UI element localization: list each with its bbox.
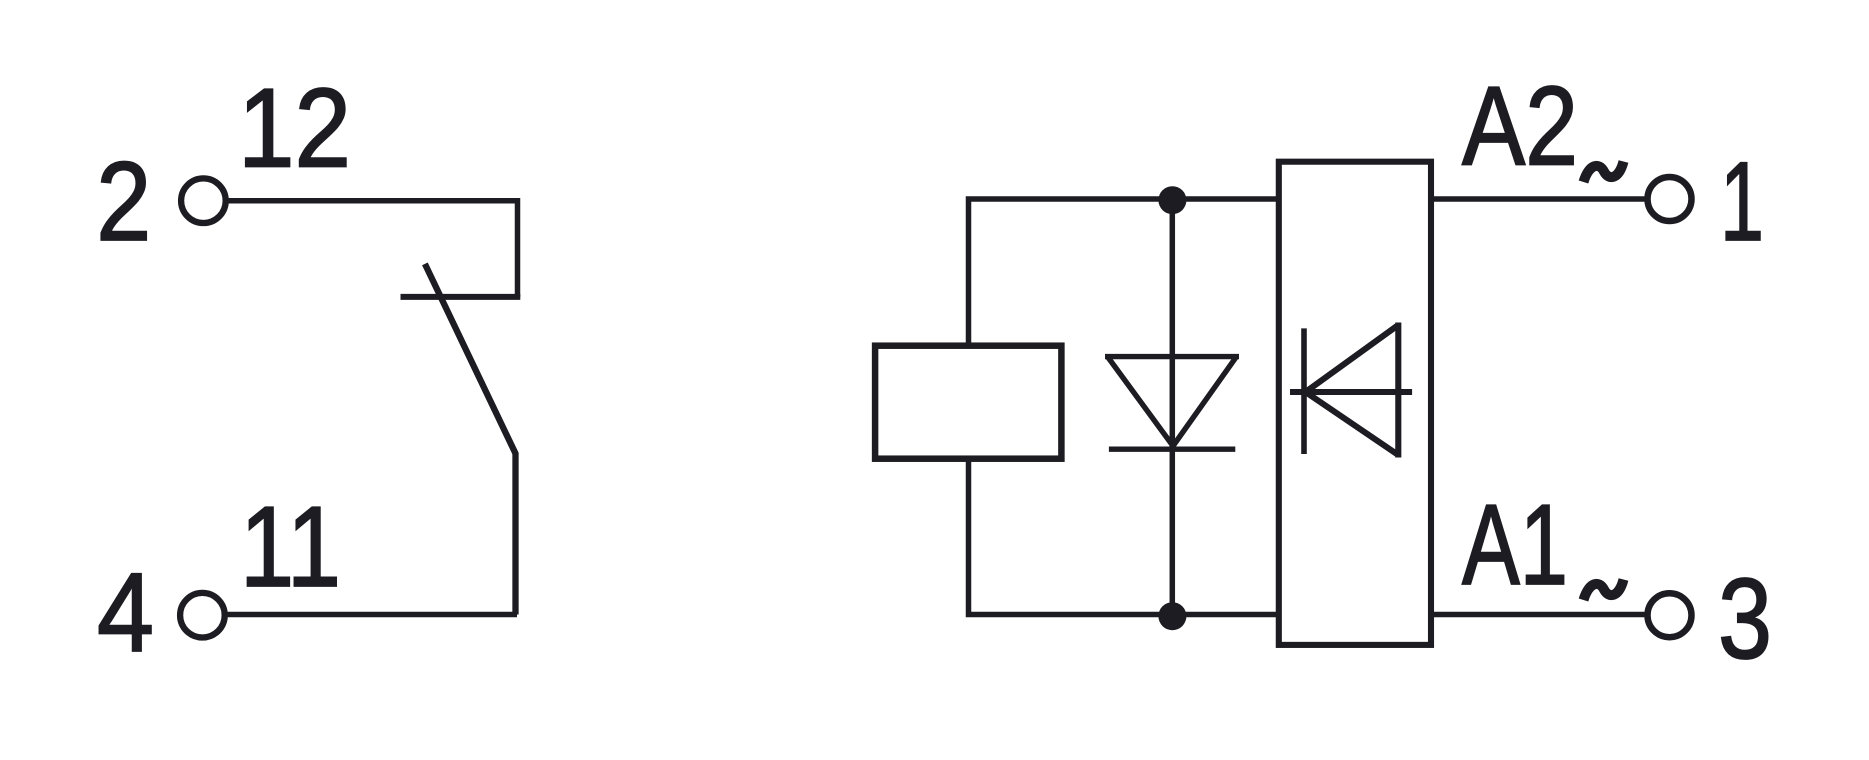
svg-text:A1: A1 (1462, 482, 1568, 609)
junction node top (1158, 186, 1186, 214)
wire coil bottom to bottom rail (969, 459, 1279, 615)
wire U1 to terminal 1 (1431, 196, 1645, 202)
U1 symbol cathode bar (1301, 328, 1307, 454)
svg-text:11: 11 (240, 484, 341, 611)
terminal circle 4 (180, 593, 225, 638)
terminal circle 1 (1648, 177, 1692, 221)
U1 symbol diode triangle (1306, 323, 1399, 458)
terminal circle 2 (181, 178, 226, 223)
contact label 11 (240, 484, 341, 611)
wire U1 to terminal 3 (1431, 612, 1645, 618)
contact label 12 (238, 66, 351, 191)
wire diode branch vertical (1170, 199, 1176, 615)
diode V1 triangle (1105, 357, 1239, 446)
svg-text:2: 2 (96, 139, 151, 264)
wire from arm to terminal 4 (227, 612, 517, 618)
svg-text:4: 4 (97, 550, 154, 675)
AC tilde near A1 (1584, 580, 1624, 601)
electronics block U1 (1279, 162, 1431, 645)
terminal label 1 (1720, 139, 1764, 264)
svg-text:A2: A2 (1462, 64, 1578, 189)
terminal label 4 (97, 550, 154, 675)
terminal circle 3 (1648, 593, 1692, 637)
terminal label 2 (96, 139, 151, 264)
terminal label 3 (1718, 556, 1772, 683)
diode V1 cathode bar (1109, 447, 1235, 452)
fixed contact line 12 (401, 294, 521, 300)
label A1 (1462, 482, 1568, 609)
wire top-left of coil branch (969, 199, 1279, 346)
svg-text:12: 12 (238, 66, 351, 191)
wire from terminal 2 to corner (228, 201, 518, 297)
switch arm (NC contact 11-12) (425, 264, 516, 615)
label A2 (1462, 64, 1578, 189)
svg-text:3: 3 (1718, 556, 1772, 683)
U1 symbol gate line (1290, 389, 1412, 395)
AC tilde near A2 (1584, 162, 1624, 183)
svg-text:1: 1 (1720, 139, 1764, 264)
relay coil K1 (875, 346, 1061, 459)
junction node bottom (1158, 602, 1186, 630)
